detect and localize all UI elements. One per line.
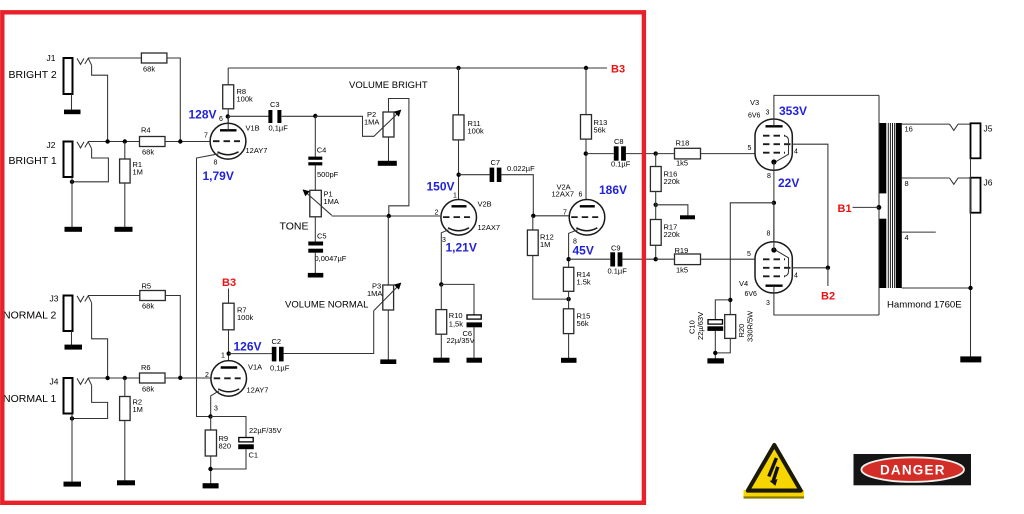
node B (R1 join) (123, 139, 127, 143)
node B3 rail / R11 (456, 66, 460, 70)
resistor R11 (453, 68, 484, 140)
wire R8 to plate node (227, 109, 229, 124)
capacitor C8 (586, 137, 631, 169)
node R13 / C8 (584, 151, 588, 155)
svg-text:100k: 100k (237, 313, 254, 322)
svg-text:C2: C2 (272, 337, 282, 346)
node secondary common (968, 286, 972, 290)
resistor R14 (563, 267, 591, 291)
secondary winding (896, 123, 902, 288)
svg-text:0.1µF: 0.1µF (611, 160, 631, 169)
node V2B plate / C7 (457, 173, 461, 177)
wire R17 to C9 node (655, 245, 657, 259)
svg-text:8: 8 (214, 160, 218, 167)
svg-text:68k: 68k (143, 65, 155, 74)
secondary common wire (902, 287, 971, 289)
svg-text:0.022µF: 0.022µF (507, 164, 535, 173)
jack J3 tip contact (77, 296, 84, 302)
ground R2 (117, 480, 135, 485)
wire P2 bottom to ground (388, 137, 390, 162)
svg-text:1k5: 1k5 (676, 266, 688, 275)
wire V3 plate to transformer (774, 95, 879, 126)
svg-text:1M: 1M (133, 405, 143, 414)
wire C5 ground stem (314, 253, 316, 273)
wire R14 to R15 (568, 291, 570, 309)
svg-text:22µF/35V: 22µF/35V (249, 426, 282, 435)
wire V2A cathode (569, 230, 578, 267)
wire R9 bottom (210, 456, 212, 484)
capacitor C10 electrolytic (688, 300, 731, 340)
wire R12 to cathode node (533, 256, 569, 300)
svg-text:12AX7: 12AX7 (478, 223, 501, 232)
svg-text:B3: B3 (611, 64, 625, 76)
potentiometer P3 1MA (367, 216, 401, 311)
primary left wire (878, 95, 880, 315)
tap 4 stub (902, 231, 936, 233)
svg-text:150V: 150V (427, 180, 455, 194)
svg-text:3: 3 (766, 110, 770, 117)
svg-text:1MA: 1MA (364, 118, 379, 127)
wire P3 wiper from C2 (284, 311, 374, 354)
ground J4 (64, 482, 82, 487)
svg-text:V4: V4 (739, 279, 748, 288)
wire V2B cathode (441, 230, 448, 285)
wire cathode node to C1 (211, 417, 247, 438)
input jack J2 (9, 140, 73, 177)
wire R6 to V1A grid (165, 377, 211, 379)
node D (J3 contact join) (105, 376, 109, 380)
output jack J6 (971, 178, 993, 213)
wire R18 to V3 grid (701, 153, 756, 155)
svg-text:820: 820 (219, 442, 232, 451)
svg-text:100k: 100k (237, 95, 254, 104)
pentode V3 6V6 (748, 98, 799, 180)
wire J4 ground stem (71, 419, 73, 483)
svg-text:6: 6 (219, 116, 223, 123)
resistor R12 (527, 216, 553, 256)
svg-text:1: 1 (453, 193, 457, 200)
wire C8 to R18 node (626, 153, 656, 155)
wire C9 to R19 node (622, 258, 655, 260)
node C8/R18/R16 (654, 151, 658, 155)
svg-text:4: 4 (794, 149, 798, 156)
high voltage warning triangle (744, 445, 805, 499)
resistor 68k (bright2 grid stopper) (141, 53, 167, 74)
ground J2 (65, 227, 83, 232)
svg-text:8: 8 (905, 179, 909, 188)
output jack J5 (971, 123, 993, 158)
ground R16/R17 (680, 215, 695, 219)
svg-text:2: 2 (205, 372, 209, 379)
svg-text:NORMAL 2: NORMAL 2 (3, 310, 56, 322)
wire J1 tip to 68k (88, 57, 141, 59)
svg-text:0,1µF: 0,1µF (269, 124, 289, 133)
svg-text:100k: 100k (468, 127, 485, 136)
tap 16 wire (902, 123, 950, 125)
wire V1B cathode (197, 154, 219, 417)
wire C10/R20 bottoms (714, 331, 716, 359)
svg-text:3: 3 (214, 406, 218, 413)
node F (R5 join) (178, 376, 182, 380)
node cathode join (208, 414, 212, 418)
resistor R6 (140, 363, 166, 394)
svg-text:220k: 220k (664, 230, 681, 239)
svg-text:22µ/63V: 22µ/63V (696, 312, 705, 340)
svg-text:0,0047µF: 0,0047µF (315, 254, 347, 263)
ground R15 (561, 358, 577, 363)
wire J2 ground stem (71, 182, 73, 227)
wire C3 to tone node (282, 115, 316, 117)
svg-text:220k: 220k (664, 177, 681, 186)
node C10/R20 top (728, 298, 732, 302)
svg-text:4: 4 (905, 233, 909, 242)
node V2A cathode / C9 (566, 257, 570, 261)
capacitor C6 electrolytic (441, 284, 482, 345)
svg-text:V2B: V2B (478, 200, 492, 209)
resistor R5 (140, 282, 166, 311)
svg-text:1MA: 1MA (367, 289, 382, 298)
wire V3 cathode (773, 162, 775, 242)
wire node to P2 wiper (315, 116, 374, 136)
svg-text:V1A: V1A (248, 363, 262, 372)
wire V4 plate to transformer (774, 286, 879, 315)
svg-text:4: 4 (794, 273, 798, 280)
resistor R16 (650, 154, 680, 192)
jack J6 tip contact (950, 178, 971, 184)
ground R9 (203, 483, 219, 488)
capacitor C5 (308, 217, 346, 263)
svg-text:C3: C3 (270, 100, 280, 109)
wire tone output row (332, 215, 440, 217)
svg-text:V3: V3 (750, 98, 759, 107)
svg-text:1M: 1M (540, 240, 550, 249)
svg-text:V1B: V1B (246, 124, 260, 133)
svg-text:5: 5 (748, 145, 752, 152)
svg-text:8: 8 (767, 231, 771, 238)
pentode V4 6V6 (739, 231, 798, 308)
wire P2 top out (389, 99, 409, 217)
wire J4 row to R6 (88, 377, 139, 379)
op... triode V1B (204, 117, 267, 167)
ground J1 (64, 110, 81, 115)
svg-text:68k: 68k (142, 148, 154, 157)
resistor R9 (205, 417, 231, 457)
wire R10 ground stem (440, 334, 442, 358)
svg-text:1,79V: 1,79V (203, 169, 234, 183)
resistor R20 (725, 310, 755, 342)
wire R7 to V1A plate (228, 330, 230, 361)
svg-text:C8: C8 (614, 137, 624, 146)
svg-text:TONE: TONE (280, 221, 309, 233)
ground P2 (378, 161, 397, 166)
svg-text:R18: R18 (676, 139, 690, 148)
DANGER sign (854, 454, 972, 485)
node B3 rail / R13 (584, 66, 588, 70)
wire R2 ground stem (124, 421, 126, 481)
svg-text:1,5k: 1,5k (449, 320, 463, 329)
svg-text:12AX7: 12AX7 (552, 190, 575, 199)
ground P3 (380, 359, 396, 364)
svg-text:1M: 1M (133, 168, 143, 177)
wire R4 to V1B grid (165, 141, 210, 143)
ground C6 (467, 358, 483, 363)
svg-text:R4: R4 (141, 126, 151, 135)
resistor R18 (656, 139, 701, 168)
node J4 sleeve (70, 416, 74, 420)
ground C5 (308, 273, 324, 278)
primary winding lower (880, 219, 887, 288)
resistor R19 (656, 246, 701, 275)
resistor R8 (223, 68, 253, 109)
wire J1 shorting contact (92, 65, 108, 141)
node C9/R19/R17 (654, 257, 658, 261)
svg-text:DANGER: DANGER (880, 462, 946, 477)
B3 supply rail (228, 67, 607, 69)
ground J3 (65, 345, 83, 350)
svg-text:Hammond 1760E: Hammond 1760E (887, 300, 962, 311)
wire V3 pin4 to bus (792, 144, 828, 268)
wire R15 ground stem (568, 334, 570, 358)
svg-text:56k: 56k (594, 126, 606, 135)
wire jack sleeve bus (970, 158, 972, 356)
jack J1 tip contact (77, 58, 84, 64)
svg-text:J4: J4 (50, 377, 59, 387)
input jack J4 (3, 377, 73, 414)
svg-text:2: 2 (435, 210, 439, 217)
capacitor C1 electrolytic (238, 426, 281, 460)
wire J3 tip to R5 (88, 295, 140, 297)
wire R11 to V2B plate (458, 140, 460, 200)
wire C6 ground stem (473, 327, 475, 358)
svg-text:C4: C4 (317, 146, 327, 155)
svg-text:BRIGHT 1: BRIGHT 1 (9, 155, 57, 167)
wire R13 to V2A plate (585, 139, 587, 200)
triode V2A (552, 183, 605, 246)
resistor R15 (563, 309, 590, 334)
svg-text:12AY7: 12AY7 (247, 386, 269, 395)
wire J2 sleeve stub (71, 177, 73, 182)
wire R1 ground stem (124, 183, 126, 227)
svg-text:C7: C7 (491, 158, 501, 167)
wire P3 bottom to ground (387, 310, 389, 360)
wire B1 (853, 206, 879, 208)
svg-text:22V: 22V (778, 176, 799, 190)
svg-text:56k: 56k (577, 319, 589, 328)
triode V2B (435, 193, 501, 245)
wire cathode bus to bias network (730, 203, 774, 315)
svg-text:B2: B2 (821, 291, 835, 303)
node C10/R20 bottom (713, 351, 717, 355)
wire 68k to grid node (167, 58, 180, 142)
capacitor C2 (229, 337, 290, 373)
svg-text:500pF: 500pF (317, 170, 339, 179)
node tone top (313, 114, 317, 118)
resistor R7 (223, 289, 254, 330)
ground R10 (433, 358, 449, 363)
svg-text:J2: J2 (47, 140, 56, 150)
resistor R13 (581, 68, 608, 139)
svg-text:1MA: 1MA (324, 197, 339, 206)
wire C7 to V2A grid (501, 175, 569, 216)
svg-text:BRIGHT 2: BRIGHT 2 (9, 69, 57, 81)
input jack J3 (3, 294, 73, 332)
tap 8 wire (902, 177, 950, 179)
wire B2 stub (827, 268, 829, 286)
wire J4 sleeve stub (71, 414, 73, 419)
node E (R2 join) (123, 376, 127, 380)
node A (J1 contact join) (105, 139, 109, 143)
svg-text:R19: R19 (675, 246, 689, 255)
svg-text:1,21V: 1,21V (446, 241, 477, 255)
node J2 sleeve (70, 180, 74, 184)
svg-text:C1: C1 (249, 451, 259, 460)
wire J3 ground stem (71, 331, 73, 345)
jack J2 tip contact (77, 142, 84, 148)
svg-text:3: 3 (766, 300, 770, 307)
svg-text:R6: R6 (141, 363, 151, 372)
primary winding upper (880, 123, 887, 193)
node B1 center tap (877, 205, 882, 210)
node V1A plate (227, 351, 231, 355)
capacitor C7 (459, 158, 535, 182)
ground R1 (115, 227, 133, 232)
node V1B plate (226, 114, 230, 118)
svg-text:1: 1 (221, 353, 225, 360)
svg-text:C9: C9 (611, 244, 621, 253)
capacitor C3 (228, 100, 288, 133)
svg-text:6: 6 (579, 192, 583, 199)
resistor R2 (120, 378, 143, 421)
potentiometer P2 1MA (364, 110, 401, 137)
resistor R1 (120, 142, 143, 184)
svg-text:6V6: 6V6 (748, 113, 761, 120)
svg-text:12AY7: 12AY7 (246, 146, 268, 155)
svg-text:B1: B1 (838, 203, 852, 215)
jack J4 tip contact (77, 378, 84, 384)
svg-text:R5: R5 (142, 282, 152, 291)
core laminations (887, 123, 889, 288)
node V3 cathode (772, 201, 776, 205)
wire V4 pin4 (792, 267, 828, 269)
svg-text:5: 5 (747, 251, 751, 258)
svg-text:8: 8 (767, 173, 771, 180)
resistor R4 (140, 126, 166, 157)
svg-text:22µ/35V: 22µ/35V (447, 336, 475, 345)
svg-text:6V6: 6V6 (745, 291, 758, 298)
svg-text:45V: 45V (573, 244, 594, 258)
svg-text:126V: 126V (234, 340, 262, 354)
svg-text:B3: B3 (222, 277, 236, 289)
svg-text:J1: J1 (47, 53, 56, 63)
node R14/R15 (566, 297, 570, 301)
svg-text:128V: 128V (189, 108, 217, 122)
node pin4 bus (826, 266, 830, 270)
wire J4 shorting contact to sleeve (72, 385, 108, 418)
svg-text:7: 7 (204, 133, 208, 140)
wire J2 shorting contact to sleeve (72, 149, 108, 182)
svg-text:VOLUME NORMAL: VOLUME NORMAL (285, 300, 368, 311)
jack J5 tip contact (950, 124, 971, 130)
svg-text:J3: J3 (50, 294, 59, 304)
wire V4 cathode to bus (773, 203, 775, 250)
svg-text:VOLUME BRIGHT: VOLUME BRIGHT (349, 80, 428, 91)
capacitor C4 (308, 116, 338, 179)
ground C10/R20 (707, 358, 724, 363)
svg-text:16: 16 (905, 125, 913, 134)
wire R19 to V4 grid (701, 258, 756, 260)
wire J3 shorting contact (92, 303, 108, 378)
node P3 top (387, 214, 391, 218)
svg-text:186V: 186V (599, 183, 627, 197)
svg-text:NORMAL 1: NORMAL 1 (3, 393, 56, 405)
wire R16 to node (655, 192, 657, 220)
node R9/C1 (208, 467, 212, 471)
svg-text:7: 7 (563, 210, 567, 217)
node V2B cathode (439, 282, 443, 286)
wire V1A cathode (211, 391, 219, 417)
wire J1 ground stem (71, 94, 73, 110)
triode V1A (205, 361, 268, 413)
svg-text:1k5: 1k5 (676, 159, 688, 168)
node R12 top (531, 214, 535, 218)
svg-text:353V: 353V (779, 104, 807, 118)
svg-text:J5: J5 (984, 124, 993, 134)
transformer T1 Hammond 1760E (838, 95, 971, 315)
potentiometer P1 1MA (tone) (280, 165, 339, 232)
wire node to ground stub (656, 205, 688, 216)
svg-text:J6: J6 (984, 178, 993, 188)
svg-text:68k: 68k (142, 302, 154, 311)
svg-text:C5: C5 (317, 232, 327, 241)
svg-text:330R/5W: 330R/5W (746, 310, 755, 342)
wire J2 row to R4 (88, 141, 139, 143)
node C (68k join) (178, 139, 182, 143)
svg-text:0,1µF: 0,1µF (270, 364, 290, 373)
capacitor C9 (569, 244, 628, 276)
svg-text:1.5k: 1.5k (577, 278, 591, 287)
svg-text:0.1µF: 0.1µF (608, 267, 628, 276)
svg-text:68k: 68k (142, 385, 154, 394)
resistor R10 (436, 284, 463, 334)
node R16/R17/gnd (654, 203, 658, 207)
input jack J1 (9, 53, 73, 94)
wire R5 to grid node (165, 296, 180, 378)
wire C1 bottom (211, 449, 247, 469)
preamp boundary red frame (2, 12, 644, 503)
ground secondary (960, 356, 981, 362)
resistor R17 (650, 220, 680, 246)
